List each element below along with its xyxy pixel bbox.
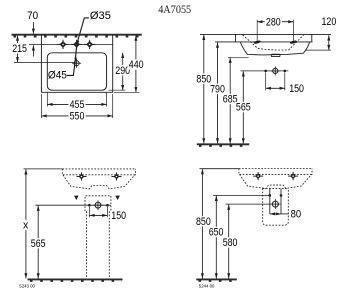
svg-text:5243 00: 5243 00	[19, 283, 35, 288]
svg-text:80: 80	[291, 209, 302, 221]
svg-text:Ø35: Ø35	[90, 10, 111, 22]
svg-text:550: 550	[70, 111, 85, 123]
svg-text:650: 650	[209, 227, 224, 239]
svg-text:850: 850	[196, 73, 211, 85]
svg-text:280: 280	[266, 16, 281, 28]
svg-text:215: 215	[12, 43, 27, 55]
svg-text:150: 150	[111, 210, 126, 222]
svg-text:580: 580	[223, 237, 238, 249]
svg-text:565: 565	[236, 102, 251, 114]
svg-text:120: 120	[322, 16, 337, 28]
svg-text:Ø45: Ø45	[48, 69, 67, 81]
svg-text:565: 565	[31, 238, 46, 250]
svg-text:x: x	[23, 219, 29, 231]
svg-text:5244 00: 5244 00	[199, 283, 215, 288]
svg-text:455: 455	[70, 99, 85, 111]
svg-text:70: 70	[27, 10, 38, 22]
svg-text:440: 440	[129, 59, 144, 71]
svg-text:150: 150	[289, 83, 304, 95]
svg-text:4A7055: 4A7055	[158, 4, 191, 16]
